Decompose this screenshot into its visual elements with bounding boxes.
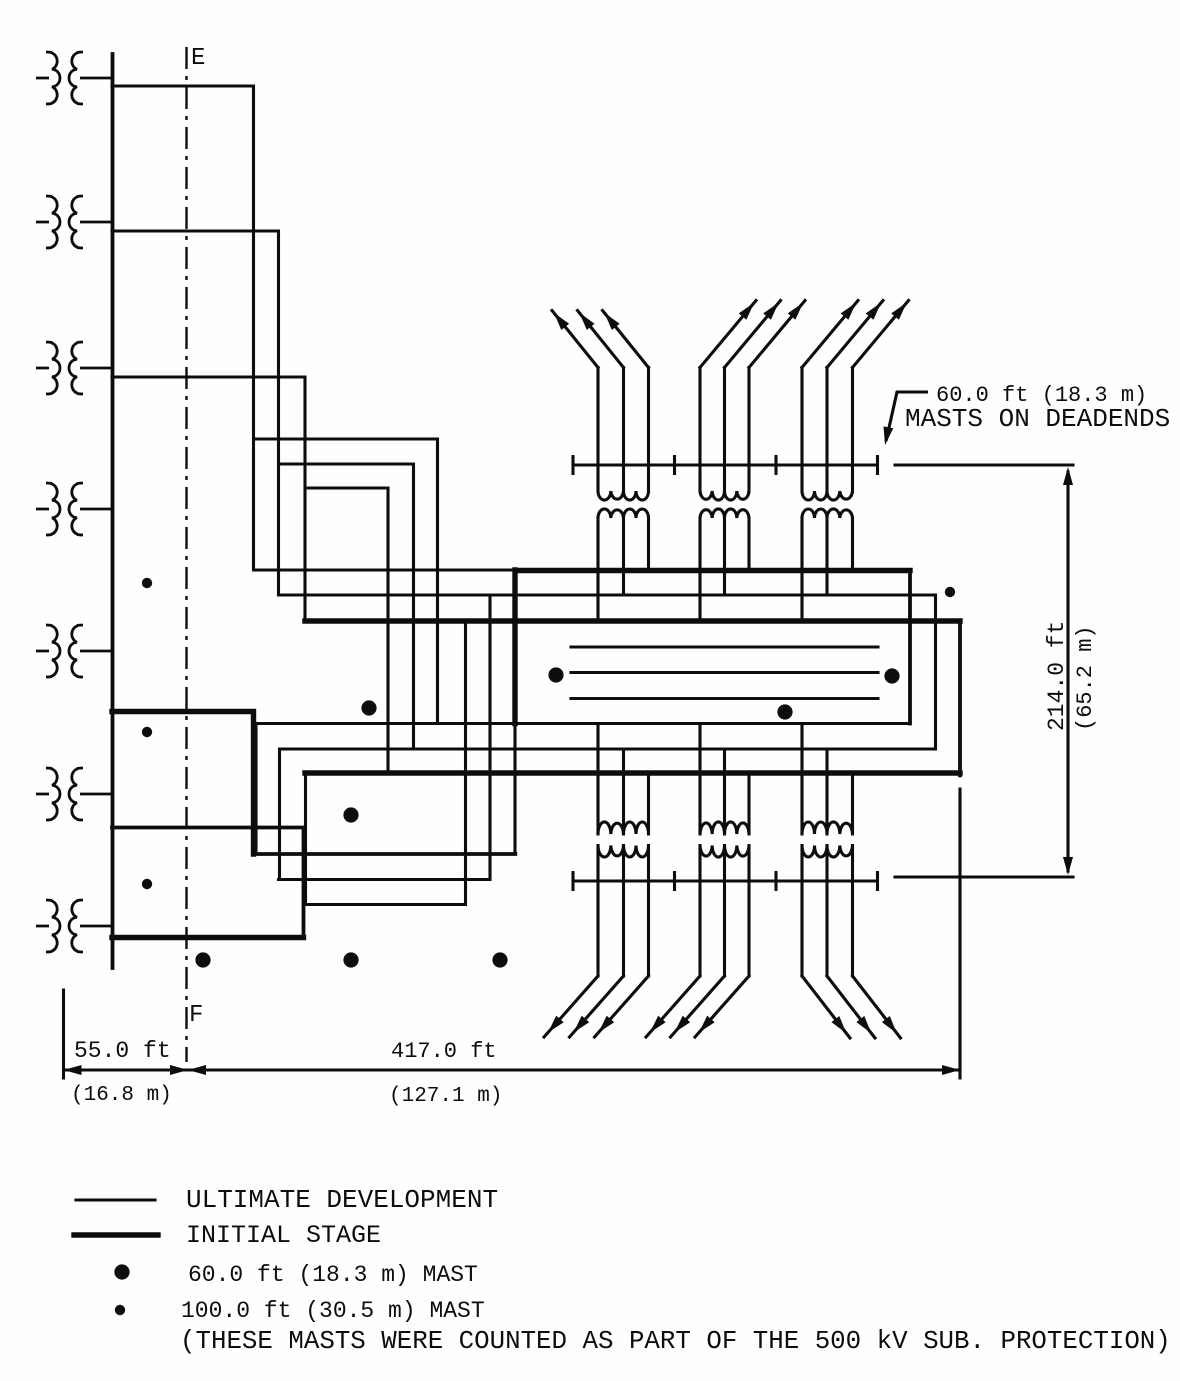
svg-text:214.0 ft: 214.0 ft (1044, 621, 1070, 731)
svg-text:417.0 ft: 417.0 ft (391, 1039, 497, 1064)
svg-text:MASTS ON DEADENDS: MASTS ON DEADENDS (905, 404, 1170, 434)
svg-text:60.0 ft (18.3 m) MAST: 60.0 ft (18.3 m) MAST (188, 1262, 478, 1288)
svg-text:55.0 ft: 55.0 ft (74, 1038, 171, 1064)
svg-text:100.0 ft (30.5 m) MAST: 100.0 ft (30.5 m) MAST (181, 1298, 485, 1324)
svg-text:INITIAL STAGE: INITIAL STAGE (186, 1221, 381, 1250)
svg-text:ULTIMATE DEVELOPMENT: ULTIMATE DEVELOPMENT (186, 1185, 498, 1215)
svg-text:E: E (191, 45, 205, 72)
svg-text:F: F (189, 1002, 203, 1029)
svg-text:(65.2 m): (65.2 m) (1073, 625, 1098, 731)
svg-text:(127.1 m): (127.1 m) (389, 1085, 502, 1108)
svg-text:(THESE MASTS WERE COUNTED AS P: (THESE MASTS WERE COUNTED AS PART OF THE… (180, 1327, 1171, 1356)
svg-text:(16.8 m): (16.8 m) (71, 1084, 172, 1107)
